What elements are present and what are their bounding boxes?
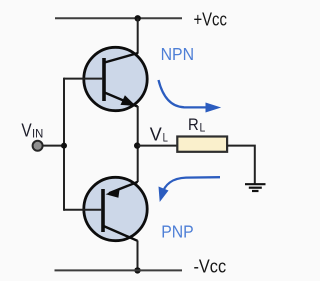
wire resistor to ground bbox=[227, 146, 255, 184]
wire PNP base bbox=[64, 209, 102, 211]
terminal VIN bbox=[33, 141, 43, 151]
wire NPN collector vertical bbox=[137, 18, 139, 53]
transistor Q2 PNP bbox=[84, 177, 147, 241]
resistor RL bbox=[177, 137, 227, 152]
transistor Q1 NPN bbox=[84, 47, 147, 110]
wire output vertical (emitters) bbox=[137, 106, 139, 182]
arrow current PNP (blue, curving left) bbox=[159, 177, 221, 202]
svg-text:R: R bbox=[188, 116, 199, 134]
wire input stub bbox=[41, 145, 64, 147]
wire base vertical bus bbox=[63, 78, 65, 211]
wire NPN base bbox=[64, 78, 103, 80]
arrow current NPN (blue, curving right) bbox=[159, 80, 222, 113]
svg-text:V: V bbox=[21, 119, 32, 140]
svg-text:V: V bbox=[150, 124, 162, 144]
junction top rail bbox=[135, 15, 141, 21]
svg-text:+Vcc: +Vcc bbox=[194, 8, 227, 29]
junction output node bbox=[134, 142, 140, 148]
svg-text:IN: IN bbox=[32, 127, 43, 141]
svg-text:-Vcc: -Vcc bbox=[194, 255, 227, 276]
wire top rail +Vcc bbox=[55, 17, 182, 19]
svg-text:L: L bbox=[163, 130, 169, 144]
ground bbox=[245, 184, 266, 191]
wire output to resistor bbox=[138, 145, 178, 147]
svg-text:L: L bbox=[200, 122, 206, 134]
wire PNP collector vertical bbox=[137, 241, 139, 271]
junction bottom rail bbox=[134, 267, 140, 273]
svg-text:NPN: NPN bbox=[161, 44, 195, 64]
junction input node bbox=[61, 143, 67, 149]
svg-text:PNP: PNP bbox=[161, 221, 194, 241]
wire bottom rail -Vcc bbox=[55, 269, 183, 271]
